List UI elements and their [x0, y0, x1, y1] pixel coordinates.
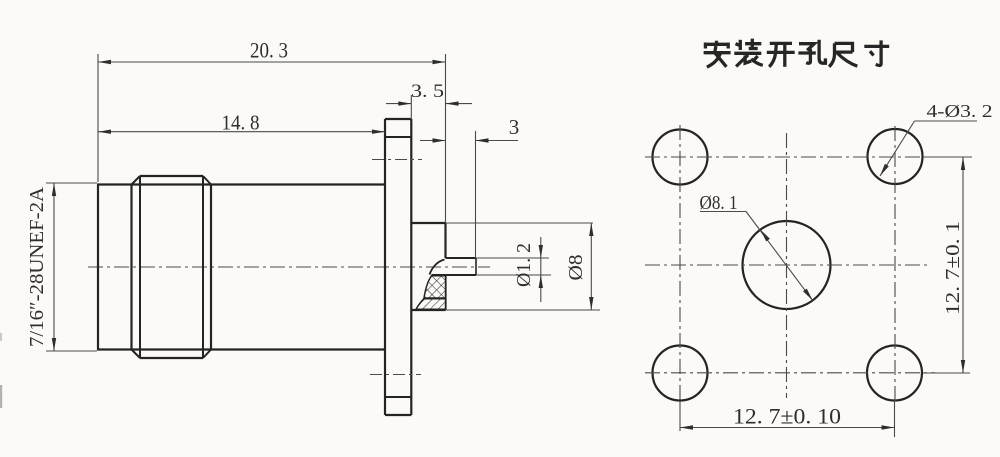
nut chamfer top-left [132, 176, 141, 185]
rear barrel right face lower [444, 275, 446, 310]
dim Ø1.2 line [540, 237, 542, 302]
edge artifact marks [0, 333, 2, 341]
middle horizontal centerline [645, 264, 930, 266]
left holes vertical centerline [679, 125, 681, 403]
svg-text:Ø8: Ø8 [565, 255, 587, 281]
hole BR circle [867, 346, 922, 401]
rear barrel right face upper [444, 223, 446, 258]
svg-text:Ø8. 1: Ø8. 1 [700, 193, 738, 214]
leader 4-Ø3.2: underline [915, 120, 978, 122]
Ø8 top extension line [446, 222, 594, 224]
pin top edge [446, 257, 477, 259]
flange top hole centerline [372, 159, 422, 161]
flange left face [384, 119, 386, 415]
nut inner edge left [139, 176, 141, 358]
bottom holes horizontal centerline [645, 372, 935, 374]
svg-text:14. 8: 14. 8 [222, 111, 260, 135]
dim 3.5 line right part [446, 103, 473, 105]
nut chamfer top-right [203, 176, 211, 185]
dim 7/16 thread: extension bottom [46, 350, 97, 352]
insulator cross-hatched section [424, 276, 446, 298]
nut chamfer bottom-left [132, 350, 141, 359]
pin end face [475, 258, 477, 275]
nut top face [140, 175, 203, 177]
dim 12.7 bottom line [680, 427, 895, 429]
dim 7/16 thread line [53, 183, 55, 351]
dim 3 extension (pin end, above) [475, 131, 477, 258]
pin flare curve [430, 260, 445, 275]
dim 12.7 bottom: extension left [679, 401, 681, 431]
dim 12.7 bottom: extension right [894, 401, 896, 437]
dim 20.3 extension left [97, 54, 99, 182]
svg-text:12. 7±0. 10: 12. 7±0. 10 [733, 404, 841, 429]
hole TL circle [653, 130, 708, 185]
title char 孔 [798, 40, 825, 63]
flange top face [385, 118, 411, 120]
nut bottom face [140, 357, 203, 359]
dim 3.5 extension (flange right, above) [410, 95, 412, 119]
flange right face [410, 119, 412, 415]
dim 3 line right part [476, 140, 519, 142]
title char 寸 [864, 40, 889, 65]
dim 12.7 right: extension bottom [923, 372, 970, 374]
nut right face [210, 185, 212, 350]
title char 开 [767, 43, 795, 66]
body bottom line [97, 348, 385, 350]
nut inner edge right [202, 176, 204, 358]
Ø8 bottom extension line [446, 309, 601, 311]
center vertical centerline [786, 133, 788, 398]
dim 20.3 line [98, 61, 446, 63]
dim 12.7 right line [962, 157, 964, 373]
nut left face [130, 185, 132, 350]
flange bottom hole centerline [370, 374, 421, 376]
flange top chamfer line [385, 136, 411, 138]
svg-text:4-Ø3. 2: 4-Ø3. 2 [927, 101, 993, 121]
main centerline [88, 266, 490, 268]
title char 装 [734, 39, 763, 67]
svg-text:7/16″-28UNEF-2A: 7/16″-28UNEF-2A [26, 186, 48, 347]
Ø1.2 top extension line [476, 257, 549, 259]
title char 尺 [829, 43, 857, 66]
hole TR circle [868, 129, 923, 184]
nut chamfer bottom-right [203, 350, 211, 359]
right holes vertical centerline [894, 126, 896, 403]
Ø1.2 bottom extension line [476, 274, 551, 276]
dim 3 line left part [420, 140, 446, 142]
svg-text:20. 3: 20. 3 [250, 38, 288, 63]
flange bottom chamfer line [385, 396, 411, 398]
dim 3.5 line left part [386, 103, 411, 105]
svg-text:12. 7±0. 1: 12. 7±0. 1 [942, 221, 964, 315]
rear barrel top [411, 222, 445, 224]
body left face [97, 185, 99, 350]
pin bottom edge [432, 274, 477, 276]
hole BL circle [653, 346, 708, 401]
leader Ø8.1: underline [700, 211, 746, 213]
dim 20.3 / 3.5 / 3 shared extension right [445, 54, 447, 223]
body top line [97, 183, 385, 185]
dim 14.8 line [98, 131, 385, 133]
dim 12.7 right: extension top [923, 156, 972, 158]
flange bottom face [385, 414, 411, 416]
insulator diagonal-hatched section [416, 299, 446, 309]
dim 7/16 thread: extension top [46, 182, 97, 184]
svg-text:3: 3 [509, 115, 520, 139]
svg-text:3. 5: 3. 5 [411, 81, 444, 102]
svg-text:Ø1. 2: Ø1. 2 [513, 243, 535, 287]
leader Ø8.1: diameter diagonal [746, 212, 813, 301]
leader 4-Ø3.2: diagonal [880, 121, 915, 176]
top holes horizontal centerline [645, 156, 938, 158]
rear barrel bottom [411, 309, 445, 311]
dim Ø8 line [590, 223, 592, 310]
center hole circle Ø8.1 [743, 221, 831, 309]
title char 安 [704, 41, 731, 67]
